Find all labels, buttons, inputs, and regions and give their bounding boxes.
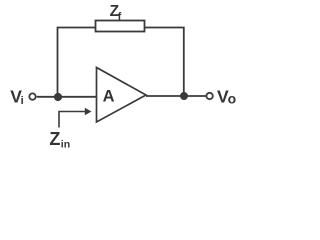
wire Zin arrow elbow bbox=[59, 112, 86, 128]
svg-text:o: o bbox=[228, 91, 237, 107]
terminal Vo open circle bbox=[206, 93, 212, 99]
wire feedback left vertical + top horizontal from input node to Zf box bbox=[58, 28, 96, 97]
svg-text:A: A bbox=[103, 88, 115, 106]
svg-text:Z: Z bbox=[49, 129, 60, 149]
label Zin bbox=[49, 129, 70, 151]
svg-text:in: in bbox=[61, 139, 70, 151]
wire input from Vi terminal to op-amp input bbox=[37, 96, 97, 98]
arrowhead Zin pointing right bbox=[85, 108, 92, 115]
node output junction dot bbox=[180, 92, 188, 100]
label Vi bbox=[10, 87, 23, 107]
label Zf bbox=[110, 3, 122, 23]
wire output from op-amp apex to Vo terminal bbox=[146, 95, 206, 97]
terminal Vi open circle bbox=[29, 93, 35, 99]
label Vo bbox=[217, 87, 236, 107]
node input junction dot bbox=[54, 93, 62, 101]
wire from Zf box to right vertical down to output node bbox=[145, 28, 184, 97]
svg-text:f: f bbox=[118, 11, 122, 23]
impedance Zf box bbox=[96, 21, 145, 32]
svg-text:i: i bbox=[21, 95, 24, 107]
op-amp A triangle bbox=[97, 68, 147, 123]
